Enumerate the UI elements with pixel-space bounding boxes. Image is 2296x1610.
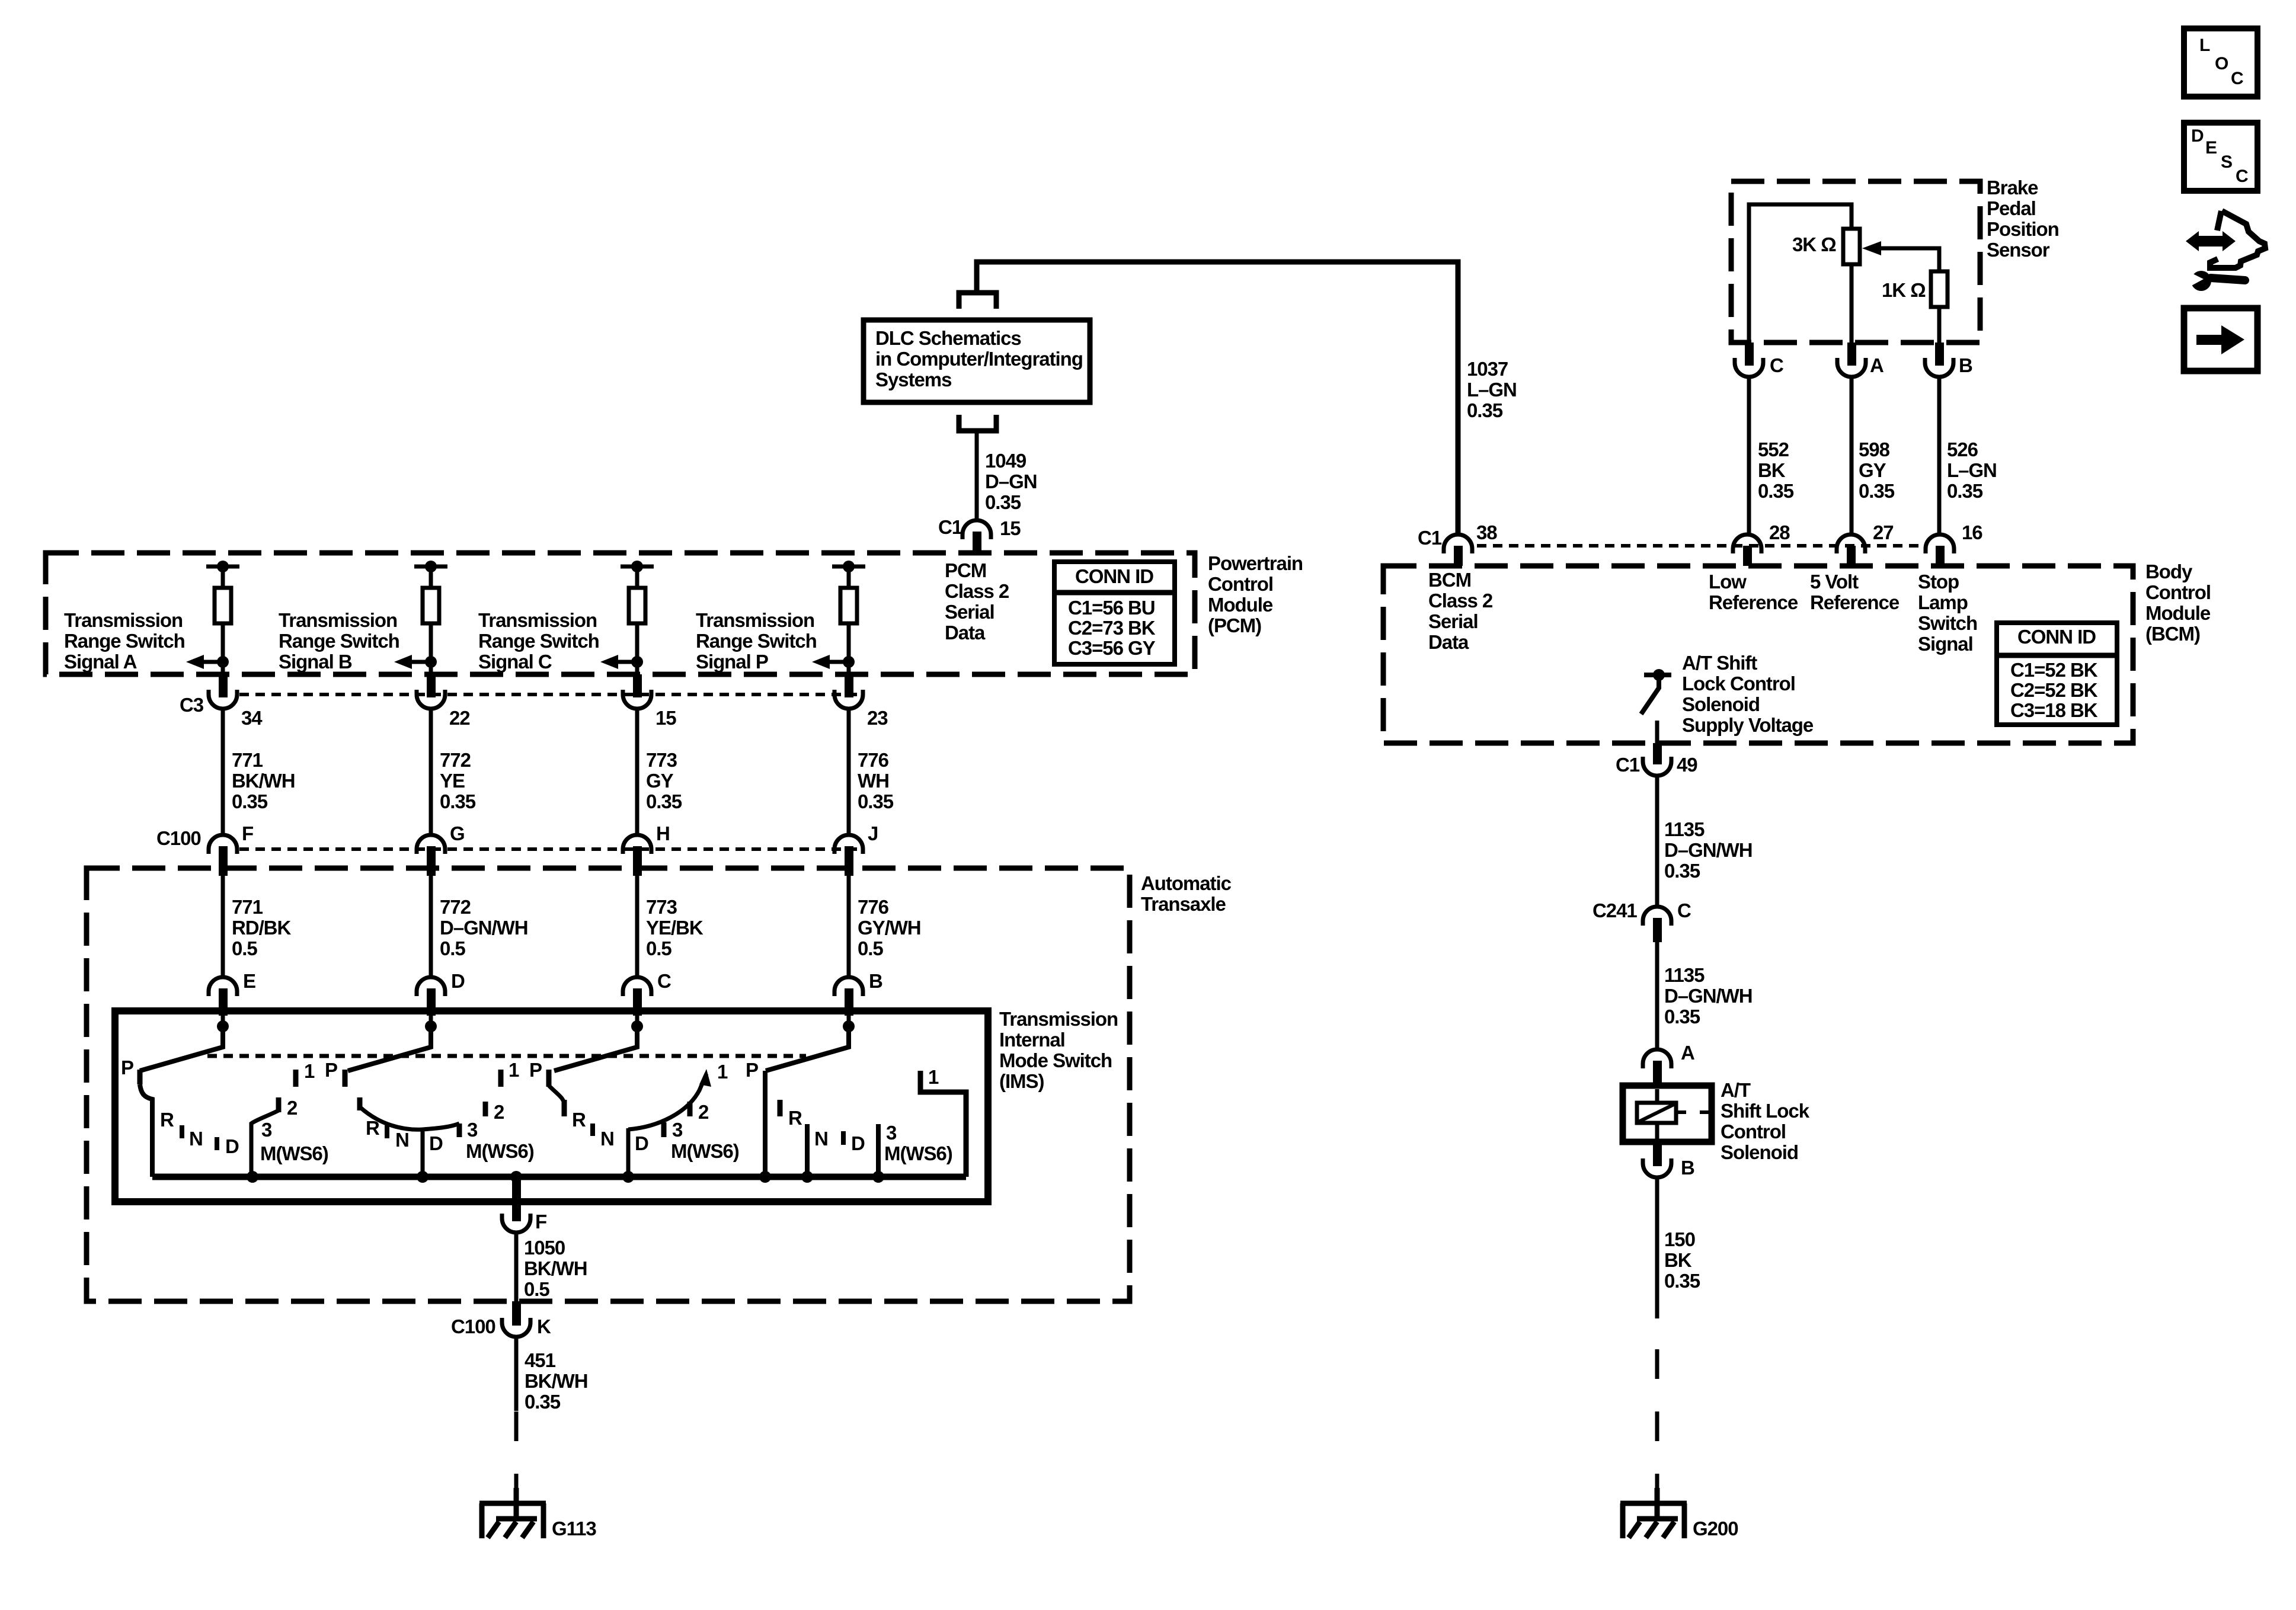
svg-text:Transmission: Transmission: [696, 609, 814, 631]
svg-text:1037: 1037: [1467, 358, 1508, 380]
svg-text:772: 772: [440, 896, 471, 918]
svg-text:Transmission: Transmission: [999, 1008, 1118, 1030]
svg-text:C1=56 BU: C1=56 BU: [1068, 597, 1155, 619]
svg-text:D–GN/WH: D–GN/WH: [440, 917, 527, 939]
svg-text:D: D: [225, 1135, 239, 1157]
svg-text:C241: C241: [1593, 900, 1637, 921]
wire 776 GY/WH 0.5: [847, 876, 851, 977]
contact 2 tick group 1: [276, 1097, 282, 1112]
svg-text:Range Switch: Range Switch: [478, 630, 599, 652]
svg-text:Signal B: Signal B: [279, 651, 352, 673]
svg-text:771: 771: [232, 896, 263, 918]
junction rail dot group 1: [247, 1171, 258, 1183]
svg-text:1: 1: [304, 1060, 315, 1082]
switch blade P group 2: [348, 1026, 431, 1071]
connector C100 pin F: [209, 835, 237, 876]
svg-text:BK: BK: [1664, 1249, 1692, 1271]
svg-text:776: 776: [858, 749, 889, 771]
wire 526 L-GN 0.35: [1937, 377, 1942, 535]
wire IMS pivot feed 3: [635, 1016, 639, 1031]
contact 3 tick group 3: [661, 1122, 667, 1137]
svg-text:1050: 1050: [524, 1237, 565, 1259]
svg-text:Module: Module: [1208, 594, 1273, 616]
junction pivot dot 3: [631, 1020, 643, 1032]
wire resistor to pin column D: [847, 623, 851, 674]
svg-text:Signal A: Signal A: [64, 651, 137, 673]
svg-text:Body: Body: [2145, 561, 2193, 582]
svg-text:C1: C1: [938, 516, 962, 538]
svg-text:Serial: Serial: [1428, 610, 1478, 632]
svg-text:Position: Position: [1987, 218, 2059, 240]
svg-text:22: 22: [449, 707, 470, 729]
svg-text:B: B: [1959, 354, 1972, 376]
svg-text:Solenoid: Solenoid: [1721, 1141, 1798, 1163]
svg-text:Control: Control: [1721, 1121, 1786, 1142]
svg-text:28: 28: [1769, 521, 1790, 543]
svg-text:Class 2: Class 2: [1428, 590, 1493, 612]
svg-text:Control: Control: [1208, 573, 1273, 595]
svg-text:Class 2: Class 2: [945, 580, 1009, 602]
svg-text:D: D: [2191, 126, 2204, 146]
svg-text:C1: C1: [1616, 754, 1640, 776]
svg-text:C3=56 GY: C3=56 GY: [1068, 637, 1156, 659]
svg-text:E: E: [2205, 138, 2217, 158]
connector sensor pin C: [1735, 343, 1763, 377]
svg-text:1135: 1135: [1664, 964, 1705, 986]
Transmission Internal Mode Switch (IMS) box: [115, 1011, 988, 1202]
connector C3 pin 34: [209, 674, 237, 709]
svg-text:2: 2: [698, 1101, 709, 1123]
signal arrow column B: [394, 655, 431, 669]
travel arc R-N-D group 2: [360, 1107, 459, 1129]
svg-text:Transaxle: Transaxle: [1141, 893, 1226, 915]
svg-text:Transmission: Transmission: [478, 609, 597, 631]
svg-text:A/T: A/T: [1721, 1079, 1751, 1101]
connector IMS pin D: [417, 977, 445, 1016]
ground G200: [1620, 1488, 1687, 1538]
svg-text:Module: Module: [2145, 602, 2211, 624]
svg-text:0.35: 0.35: [525, 1391, 561, 1413]
svg-text:3: 3: [886, 1122, 897, 1144]
wire 1049 D-GN 0.35: [975, 431, 979, 521]
svg-text:C: C: [1770, 354, 1783, 376]
junction pivot dot 1: [217, 1020, 229, 1032]
svg-text:L–GN: L–GN: [1947, 459, 1997, 481]
wire 773 YE/BK 0.5: [635, 876, 639, 977]
wire 772 YE 0.35: [429, 709, 433, 835]
svg-text:552: 552: [1758, 438, 1789, 460]
svg-text:PCM: PCM: [945, 559, 986, 581]
svg-text:D–GN/WH: D–GN/WH: [1664, 985, 1752, 1007]
svg-text:YE/BK: YE/BK: [646, 917, 703, 939]
svg-text:(BCM): (BCM): [2145, 623, 2200, 645]
junction rail dot output F: [510, 1171, 522, 1183]
wire P contact to rail group 4: [763, 1071, 768, 1177]
svg-text:Solenoid: Solenoid: [1682, 693, 1760, 715]
wire 771 BK/WH 0.35: [221, 709, 225, 835]
wire 150 BK 0.35: [1655, 1177, 1659, 1318]
icon forward arrow: [2196, 325, 2244, 354]
svg-text:Automatic: Automatic: [1141, 872, 1232, 894]
icon vehicle diagnostic (double arrow): [2186, 231, 2236, 251]
connector C1 dashed link line: [1477, 544, 1920, 548]
connector solenoid pin A: [1643, 1049, 1671, 1084]
svg-text:M(WS6): M(WS6): [466, 1140, 534, 1162]
svg-text:Range Switch: Range Switch: [696, 630, 817, 652]
wire 3 contact to rail group 4: [876, 1124, 881, 1177]
svg-text:A/T Shift: A/T Shift: [1682, 652, 1757, 674]
wire 776 WH 0.35: [847, 709, 851, 835]
svg-text:0.35: 0.35: [1664, 1006, 1700, 1028]
svg-text:3K Ω: 3K Ω: [1792, 233, 1836, 255]
wire 772 D–GN/WH 0.5: [429, 876, 433, 977]
svg-text:2: 2: [287, 1097, 298, 1119]
contact 1 tick group 1: [293, 1070, 299, 1087]
svg-text:23: 23: [867, 707, 888, 729]
svg-text:Serial: Serial: [945, 601, 994, 623]
svg-text:J: J: [868, 822, 878, 844]
svg-text:N: N: [814, 1128, 828, 1150]
CONN ID table (PCM): [1054, 562, 1175, 664]
connector C3 dashed line: [239, 693, 862, 696]
svg-text:27: 27: [1873, 521, 1894, 543]
svg-text:3: 3: [672, 1119, 683, 1141]
svg-text:C: C: [1677, 900, 1691, 921]
svg-text:A: A: [1681, 1042, 1694, 1064]
Body Control Module (BCM) dashed box: [1383, 566, 2133, 743]
svg-text:1135: 1135: [1664, 818, 1705, 840]
svg-text:BK/WH: BK/WH: [524, 1257, 587, 1279]
arc end tick group 2: [357, 1097, 363, 1110]
DLC Schematics box: [864, 320, 1090, 402]
junction node column C: [631, 656, 643, 668]
switch blade P group 4: [766, 1026, 849, 1071]
wire D contact to rail group 3: [626, 1128, 631, 1177]
svg-text:1: 1: [717, 1061, 728, 1083]
svg-text:451: 451: [525, 1349, 556, 1371]
resistor PCM pull-up column C: [629, 566, 645, 623]
contact tick R-N group 3: [590, 1124, 595, 1136]
svg-text:16: 16: [1962, 521, 1982, 543]
PCM internal node bar column A: [206, 561, 239, 572]
wire 1050 BK/WH 0.5: [514, 1233, 519, 1301]
svg-text:R: R: [788, 1107, 802, 1129]
svg-text:Systems: Systems: [875, 369, 951, 391]
svg-text:L: L: [2199, 36, 2210, 55]
svg-text:B: B: [869, 970, 882, 992]
connector C3 pin 15: [623, 674, 651, 709]
junction rail dot group 4 3: [872, 1171, 884, 1183]
svg-text:N: N: [189, 1128, 203, 1150]
Automatic Transaxle dashed box: [87, 868, 1130, 1301]
connector C1 pin 15 (PCM): [962, 520, 991, 539]
junction node column A: [217, 656, 229, 668]
contact P tick group 2: [343, 1070, 348, 1087]
svg-text:Signal C: Signal C: [478, 651, 552, 673]
svg-text:BCM: BCM: [1428, 569, 1471, 591]
Powertrain Control Module (PCM) dashed box: [46, 553, 1195, 674]
svg-text:0.35: 0.35: [985, 491, 1021, 513]
contact 2 tick group 2: [483, 1102, 488, 1116]
svg-text:G113: G113: [552, 1518, 596, 1539]
resistor PCM pull-up column A: [215, 566, 231, 623]
connector BCM pin 27: [1837, 534, 1865, 566]
svg-text:773: 773: [646, 896, 677, 918]
junction node column B: [425, 656, 437, 668]
svg-text:F: F: [242, 822, 253, 844]
svg-text:49: 49: [1677, 754, 1697, 776]
svg-text:34: 34: [241, 707, 263, 729]
svg-text:1049: 1049: [985, 450, 1027, 472]
svg-text:0.35: 0.35: [1664, 1270, 1700, 1292]
svg-text:0.35: 0.35: [646, 790, 682, 812]
connector solenoid pin B: [1643, 1142, 1671, 1177]
dashed wire to ground G113: [514, 1411, 519, 1503]
svg-text:15: 15: [655, 707, 676, 729]
svg-text:C3: C3: [180, 694, 204, 716]
svg-text:772: 772: [440, 749, 471, 771]
wire IMS pivot feed 1: [221, 1016, 225, 1031]
svg-text:CONN ID: CONN ID: [1075, 565, 1153, 587]
svg-text:CONN ID: CONN ID: [2017, 626, 2096, 648]
junction pivot dot 4: [843, 1020, 855, 1032]
svg-text:776: 776: [858, 896, 889, 918]
wire P to R contact group 3: [549, 1086, 564, 1103]
svg-text:Range Switch: Range Switch: [279, 630, 399, 652]
svg-text:Switch: Switch: [1918, 612, 1977, 634]
svg-text:0.5: 0.5: [524, 1278, 549, 1300]
connector C100 pin K: [502, 1301, 530, 1337]
switch blade P group 1: [140, 1026, 223, 1071]
svg-text:38: 38: [1476, 521, 1497, 543]
svg-text:Reference: Reference: [1810, 591, 1900, 613]
resistor 3K potentiometer: [1843, 229, 1860, 264]
icon LOC box: [2184, 28, 2257, 97]
signal arrow column A: [186, 655, 223, 669]
svg-text:0.35: 0.35: [1664, 860, 1700, 882]
svg-text:C1=52 BK: C1=52 BK: [2010, 659, 2098, 681]
contact tick R-N group 1: [180, 1125, 184, 1138]
svg-text:Lamp: Lamp: [1918, 591, 1968, 613]
svg-text:Brake: Brake: [1987, 177, 2038, 199]
svg-text:598: 598: [1859, 438, 1890, 460]
wire N contact to rail group 4: [805, 1124, 810, 1177]
A/T Shift Lock Control Solenoid box: [1623, 1086, 1712, 1142]
svg-text:0.5: 0.5: [232, 937, 257, 959]
connector IMS pin B: [834, 977, 863, 1016]
connector C241 pin C: [1643, 907, 1671, 942]
connector IMS pin F: [502, 1180, 530, 1233]
svg-text:M(WS6): M(WS6): [671, 1140, 739, 1162]
svg-text:D–GN/WH: D–GN/WH: [1664, 839, 1752, 861]
svg-text:0.5: 0.5: [440, 937, 465, 959]
svg-text:Internal: Internal: [999, 1029, 1065, 1051]
wire 552 BK 0.35: [1747, 377, 1751, 535]
svg-text:O: O: [2215, 54, 2228, 73]
svg-text:773: 773: [646, 749, 677, 771]
svg-text:3: 3: [261, 1119, 272, 1141]
svg-text:0.35: 0.35: [232, 790, 268, 812]
connector sensor pin A: [1837, 343, 1866, 377]
connector C3 pin 22: [417, 674, 445, 709]
svg-text:BK: BK: [1758, 459, 1786, 481]
IMS switch common dashed line: [207, 1054, 806, 1058]
svg-text:1: 1: [509, 1059, 519, 1081]
contact 1 tick group 2: [498, 1070, 504, 1087]
svg-text:(PCM): (PCM): [1208, 614, 1261, 636]
svg-text:A: A: [1870, 354, 1884, 376]
svg-text:0.35: 0.35: [1947, 480, 1983, 502]
svg-text:Lock Control: Lock Control: [1682, 673, 1795, 694]
contact P tick group 1: [137, 1070, 143, 1084]
resistor PCM pull-up column D: [840, 566, 857, 623]
icon wrench: [2188, 271, 2245, 291]
junction rail dot group 4 P: [759, 1171, 771, 1183]
svg-text:L–GN: L–GN: [1467, 379, 1517, 401]
svg-text:0.35: 0.35: [440, 790, 476, 812]
contact D tick group 4: [841, 1131, 846, 1145]
svg-text:1K Ω: 1K Ω: [1882, 279, 1926, 301]
IMS common rail: [152, 1174, 966, 1180]
svg-text:C2=52 BK: C2=52 BK: [2010, 679, 2098, 701]
wire arc bottom to rail group 2: [421, 1129, 425, 1177]
svg-text:15: 15: [1000, 517, 1021, 539]
solenoid dashed actuator link: [1676, 1110, 1712, 1114]
icon forward arrow box: [2184, 308, 2257, 371]
svg-text:150: 150: [1664, 1228, 1695, 1250]
potentiometer wiper arrow: [1862, 241, 1939, 271]
svg-text:Stop: Stop: [1918, 571, 1959, 593]
svg-text:B: B: [1681, 1157, 1694, 1179]
svg-text:Shift Lock: Shift Lock: [1721, 1100, 1810, 1122]
svg-text:Data: Data: [945, 622, 986, 644]
svg-text:0.35: 0.35: [1467, 399, 1503, 421]
ground G113: [479, 1488, 546, 1538]
svg-text:C1: C1: [1418, 527, 1442, 549]
junction node column D: [843, 656, 855, 668]
connector IMS pin C: [623, 977, 651, 1016]
svg-text:0.5: 0.5: [858, 937, 883, 959]
svg-text:Transmission: Transmission: [279, 609, 397, 631]
signal arrow column D: [812, 655, 849, 669]
contact 3 tick group 2: [457, 1124, 462, 1137]
icon vehicle outline: [2210, 211, 2265, 268]
contact P tick group 3: [546, 1070, 552, 1087]
svg-text:Low: Low: [1709, 571, 1747, 593]
svg-text:Signal: Signal: [1918, 633, 1973, 655]
connector C100 pin J: [834, 835, 863, 876]
wire resistor to pin column B: [429, 623, 433, 674]
svg-text:GY/WH: GY/WH: [858, 917, 921, 939]
svg-text:C100: C100: [451, 1315, 495, 1337]
svg-text:M(WS6): M(WS6): [884, 1142, 952, 1164]
svg-text:0.35: 0.35: [1859, 480, 1895, 502]
wire IMS pivot feed 2: [429, 1016, 433, 1031]
travel arc D-3-2-1 group 3: [628, 1074, 706, 1129]
wire P to common rail group 1: [140, 1084, 152, 1177]
connector C1 pin 49: [1643, 743, 1671, 776]
dashed wire to ground G200: [1655, 1318, 1659, 1503]
svg-text:H: H: [656, 822, 670, 844]
connector sensor pin B: [1925, 343, 1953, 377]
svg-text:C100: C100: [156, 827, 201, 849]
wire resistor to pin column C: [635, 623, 639, 674]
A/T shift lock control switch (BCM internal): [1641, 669, 1671, 743]
contact 1 tick and wire to rail group 4: [920, 1071, 966, 1177]
svg-text:3: 3: [467, 1119, 478, 1141]
icon DESC box: [2184, 123, 2257, 191]
contact 2 tick group 3: [687, 1102, 693, 1116]
connector IMS pin E: [209, 977, 237, 1016]
wire IMS pivot feed 4: [847, 1016, 851, 1031]
contact R tick group 3: [562, 1100, 567, 1116]
resistor PCM pull-up column B: [423, 566, 439, 623]
svg-text:D: D: [451, 970, 465, 992]
connector C100 pin H: [623, 835, 651, 876]
connector C100 pin G: [417, 835, 445, 876]
svg-text:BK/WH: BK/WH: [232, 770, 295, 792]
wire 1135 D-GN/WH 0.35 lower: [1655, 942, 1659, 1049]
wire resistor to pin column A: [221, 623, 225, 674]
svg-text:E: E: [243, 970, 255, 992]
svg-text:C: C: [2236, 167, 2248, 186]
svg-text:D: D: [429, 1132, 443, 1154]
svg-text:D: D: [851, 1132, 865, 1154]
wire 3K to pin A: [1850, 264, 1854, 343]
wire 451 BK/WH 0.35: [514, 1337, 519, 1411]
svg-text:Powertrain: Powertrain: [1208, 552, 1303, 574]
connector bracket above DLC box: [959, 293, 996, 309]
svg-text:F: F: [535, 1211, 546, 1233]
connector bracket below DLC box: [959, 415, 996, 431]
wire PCM class2 serial data to BCM (top run): [977, 262, 1458, 534]
svg-text:GY: GY: [1859, 459, 1886, 481]
wire 773 GY 0.35: [635, 709, 639, 835]
svg-text:771: 771: [232, 749, 263, 771]
connector C100 dashed line: [239, 847, 862, 851]
resistor 1K: [1931, 271, 1948, 307]
connector C1 pin 38 (BCM): [1444, 534, 1472, 566]
svg-text:N: N: [600, 1128, 614, 1150]
svg-text:D: D: [635, 1132, 648, 1154]
connector BCM pin 16: [1926, 534, 1954, 566]
svg-text:DLC Schematics: DLC Schematics: [875, 327, 1021, 349]
svg-text:2: 2: [494, 1101, 504, 1123]
junction rail dot group 3: [622, 1171, 634, 1183]
svg-text:P: P: [325, 1059, 337, 1081]
svg-text:1: 1: [928, 1066, 939, 1088]
svg-text:526: 526: [1947, 438, 1978, 460]
svg-text:M(WS6): M(WS6): [260, 1142, 328, 1164]
svg-text:Sensor: Sensor: [1987, 239, 2050, 261]
svg-text:N: N: [395, 1129, 409, 1151]
svg-text:C: C: [657, 970, 671, 992]
junction rail dot group 2: [417, 1171, 428, 1183]
svg-text:Control: Control: [2145, 581, 2211, 603]
svg-text:P: P: [529, 1059, 542, 1081]
signal arrow column C: [600, 655, 637, 669]
wire contact 2 to 3 to rail group 1: [251, 1110, 279, 1177]
svg-text:G: G: [450, 822, 465, 844]
svg-text:R: R: [366, 1117, 380, 1139]
svg-text:Pedal: Pedal: [1987, 197, 2036, 219]
svg-text:R: R: [160, 1109, 174, 1131]
svg-text:0.35: 0.35: [858, 790, 894, 812]
Brake Pedal Position Sensor dashed box: [1731, 181, 1980, 343]
PCM internal node bar column D: [832, 561, 865, 572]
wire 1K to pin B: [1937, 307, 1942, 343]
wire sensor left branch (pin C): [1749, 204, 1851, 343]
